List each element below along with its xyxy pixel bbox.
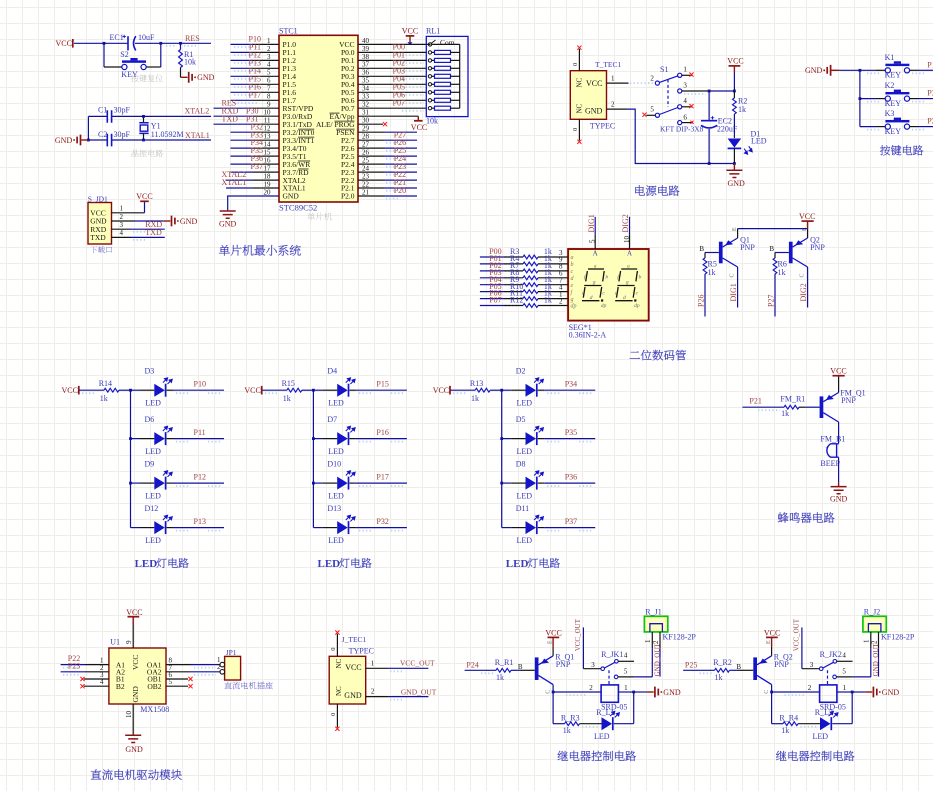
RL1 common pin row <box>428 43 431 46</box>
resistor R_R3 1k <box>565 722 580 726</box>
switch K1 KEY <box>860 69 876 71</box>
svg-text:g: g <box>571 297 574 303</box>
transistor R_Q2 PNP <box>753 657 757 680</box>
resistor R_R1 1k <box>496 668 511 672</box>
label caption crystal (gray) <box>132 150 163 157</box>
connector R_J2 KF128-2P body <box>863 616 886 632</box>
svg-text:DIG2: DIG2 <box>799 283 808 301</box>
pin wire S_JD1 pin4 TXD <box>112 236 132 238</box>
wire collector to coil <box>553 691 601 693</box>
svg-text:2: 2 <box>808 684 812 692</box>
pin wire U1 B1 nc <box>84 678 109 680</box>
svg-text:LED: LED <box>328 491 344 500</box>
svg-text:4: 4 <box>100 678 104 686</box>
svg-text:2: 2 <box>371 688 375 696</box>
svg-text:R_R1: R_R1 <box>495 658 514 667</box>
svg-text:1k: 1k <box>563 726 571 735</box>
svg-text:36: 36 <box>362 69 370 77</box>
power port VCC (MCU pin40) <box>409 36 411 42</box>
svg-text:8: 8 <box>267 93 271 101</box>
svg-text:LED: LED <box>135 558 158 570</box>
wire XTAL2 <box>88 115 107 117</box>
wire RES rail <box>74 42 128 44</box>
pin wire J_TEC1 GND_OUT <box>366 696 389 698</box>
svg-text:2: 2 <box>611 100 615 108</box>
node junction reset-R1 <box>179 42 182 45</box>
svg-text:P37: P37 <box>251 162 263 171</box>
svg-text:TYPEC: TYPEC <box>590 122 615 131</box>
svg-text:STC1: STC1 <box>279 26 298 35</box>
svg-text:C1: C1 <box>98 105 107 114</box>
svg-text:FM_B1: FM_B1 <box>820 434 845 443</box>
svg-text:P35: P35 <box>565 428 577 437</box>
svg-text:VCC: VCC <box>62 386 78 395</box>
svg-text:C2: C2 <box>98 130 107 139</box>
svg-text:10: 10 <box>125 711 133 719</box>
node junction led-gnd <box>733 162 736 165</box>
label caption power circuit <box>635 185 679 195</box>
wire DIG2 to display <box>629 217 631 235</box>
svg-text:33: 33 <box>362 93 370 101</box>
svg-text:PNP: PNP <box>556 660 571 669</box>
svg-text:KFT DIP-3X8: KFT DIP-3X8 <box>660 125 704 134</box>
svg-text:4: 4 <box>267 61 271 69</box>
svg-text:GND_OUT: GND_OUT <box>872 643 880 677</box>
svg-text:1k: 1k <box>781 726 789 735</box>
svg-text:9: 9 <box>267 101 271 109</box>
resistor R3 1k <box>480 256 504 258</box>
label caption MCU minimum system <box>219 245 301 256</box>
LED D5 <box>500 437 503 440</box>
svg-text:b: b <box>605 274 608 280</box>
MCU left pin wires and numbers <box>231 43 254 45</box>
switch K3 KEY <box>860 126 876 128</box>
svg-text:3: 3 <box>591 661 595 669</box>
svg-text:R_JK2: R_JK2 <box>820 650 842 659</box>
svg-text:D8: D8 <box>516 460 526 469</box>
svg-text:FM_R1: FM_R1 <box>780 394 805 403</box>
resistor network RL1 body <box>426 36 468 116</box>
svg-text:P13: P13 <box>194 517 206 526</box>
svg-text:1k: 1k <box>283 394 291 403</box>
svg-text:1: 1 <box>624 684 628 692</box>
svg-text:4: 4 <box>683 97 687 105</box>
svg-text:12: 12 <box>264 125 272 133</box>
relay coil SRD-05 (R_JK1) <box>601 685 618 702</box>
svg-text:R15: R15 <box>282 379 295 388</box>
svg-text:19: 19 <box>264 180 272 188</box>
svg-text:1k: 1k <box>715 673 723 682</box>
svg-text:VCC: VCC <box>136 192 152 201</box>
LED D12 <box>131 527 141 529</box>
svg-text:B: B <box>736 663 741 671</box>
resistor R12 1k <box>480 305 504 307</box>
svg-text:GND: GND <box>882 688 900 697</box>
svg-text:MX1508: MX1508 <box>140 705 169 714</box>
svg-text:5: 5 <box>650 106 654 114</box>
label caption key circuit <box>880 145 923 155</box>
connector S_JD1 body <box>88 203 112 245</box>
pin wire S_JD1 pin1 to VCC <box>112 212 145 214</box>
svg-text:XTAL2: XTAL2 <box>185 106 210 115</box>
capacitor C1 30pF <box>107 110 111 123</box>
svg-text:2: 2 <box>217 663 221 671</box>
svg-text:14: 14 <box>264 141 272 149</box>
svg-text:DIG1: DIG1 <box>729 283 738 301</box>
resistor R11 1k <box>480 298 504 300</box>
svg-text:KEY: KEY <box>885 71 902 80</box>
svg-text:B: B <box>699 245 704 253</box>
svg-text:g: g <box>593 279 596 285</box>
resistor R9 1k <box>480 284 504 286</box>
resistor R10 1k <box>480 291 504 293</box>
svg-text:GND: GND <box>219 219 237 228</box>
svg-text:40: 40 <box>362 37 370 45</box>
pin wire U1 A1 <box>61 664 85 666</box>
connector R_J1 KF128-2P body <box>644 616 667 632</box>
svg-text:11.0592M: 11.0592M <box>151 130 184 139</box>
power port VCC (digit drivers) <box>802 220 814 222</box>
svg-text:R_J1: R_J1 <box>645 607 661 616</box>
RL1 resistor elements <box>428 51 431 54</box>
svg-text:EC1: EC1 <box>110 33 124 42</box>
svg-text:39: 39 <box>362 45 370 53</box>
svg-text:TXD: TXD <box>222 114 239 123</box>
svg-text:0: 0 <box>572 128 579 131</box>
7-seg digit glyphs <box>582 269 604 301</box>
wire key bus <box>859 70 861 126</box>
svg-text:3: 3 <box>267 53 271 61</box>
svg-text:1k: 1k <box>544 296 552 305</box>
svg-text:4: 4 <box>624 652 628 660</box>
capacitor EC2 220uF <box>708 91 710 120</box>
svg-text:29: 29 <box>362 125 370 133</box>
svg-text:VCC: VCC <box>727 57 743 66</box>
svg-text:1: 1 <box>843 684 847 692</box>
pin wire TEC1 GND <box>607 108 628 110</box>
svg-text:S_JD1: S_JD1 <box>88 194 108 203</box>
label caption relay (R_J2) <box>776 751 854 761</box>
svg-text:b: b <box>571 262 574 268</box>
wire XTAL1 <box>88 139 107 141</box>
transistor R_Q1 PNP <box>535 657 539 680</box>
node junction coil gnd <box>632 691 635 694</box>
svg-text:E: E <box>732 227 738 231</box>
svg-text:10: 10 <box>264 109 272 117</box>
resistor R15 1k <box>262 389 287 391</box>
svg-text:21: 21 <box>362 188 370 196</box>
svg-text:P35: P35 <box>927 89 933 98</box>
svg-text:STC89C52: STC89C52 <box>279 202 317 212</box>
pin wire U1 OA1 <box>166 664 190 666</box>
J_TEC1 bottom shield pin <box>336 704 338 728</box>
7-seg display SEG*1 body <box>568 249 649 321</box>
svg-text:P20: P20 <box>394 186 406 195</box>
LED D3 <box>129 389 132 392</box>
transistor Q1 PNP <box>719 242 723 264</box>
svg-text:VCC: VCC <box>126 608 142 617</box>
svg-text:30pF: 30pF <box>114 105 131 114</box>
svg-text:20: 20 <box>264 188 272 196</box>
svg-text:31: 31 <box>362 109 370 117</box>
ground (buzzer) <box>838 482 840 486</box>
svg-text:2: 2 <box>559 297 563 305</box>
svg-text:VCC: VCC <box>764 628 780 637</box>
svg-text:LED: LED <box>517 536 533 545</box>
capacitor EC1 10uF <box>127 36 129 50</box>
transistor Q2 PNP <box>789 242 793 264</box>
label caption download port <box>90 246 112 253</box>
node junction collector R_Q1 <box>552 691 555 694</box>
LED D8 <box>500 482 503 485</box>
svg-text:A: A <box>593 249 598 257</box>
pin wire TEC1 VCC <box>607 82 629 84</box>
svg-text:LED: LED <box>517 491 533 500</box>
svg-text:K3: K3 <box>885 109 895 118</box>
svg-text:T_TEC1: T_TEC1 <box>595 60 621 69</box>
resistor R7 1k <box>480 270 504 272</box>
svg-text:5: 5 <box>169 678 173 686</box>
svg-text:R_L2: R_L2 <box>815 708 833 717</box>
connector J_TEC1 TYPEC body <box>329 656 366 704</box>
svg-text:32: 32 <box>362 101 370 109</box>
svg-text:LED: LED <box>751 137 767 146</box>
svg-text:5: 5 <box>842 668 846 676</box>
wire coil to gnd <box>837 691 852 693</box>
switch S1 section2 <box>655 113 659 117</box>
svg-text:LED: LED <box>517 398 533 407</box>
svg-text:P25: P25 <box>927 117 933 126</box>
J_TEC1 top shield pin <box>336 634 338 657</box>
svg-text:PNP: PNP <box>740 243 755 252</box>
power ground (reset) <box>181 76 188 78</box>
svg-text:6: 6 <box>683 113 687 121</box>
svg-text:LED: LED <box>145 491 161 500</box>
node junction key1 <box>859 69 862 72</box>
svg-text:PNP: PNP <box>774 660 789 669</box>
svg-text:P10: P10 <box>194 379 206 388</box>
svg-text:GND: GND <box>728 179 746 188</box>
svg-text:R_R2: R_R2 <box>713 658 732 667</box>
resistor R_R4 1k <box>783 722 798 726</box>
svg-text:+: + <box>825 445 829 452</box>
svg-text:28: 28 <box>362 133 370 141</box>
node junction gnd tap <box>87 139 90 142</box>
svg-text:R13: R13 <box>470 379 483 388</box>
svg-text:KF128-2P: KF128-2P <box>881 632 915 641</box>
svg-text:0: 0 <box>330 713 337 716</box>
LED D4 <box>312 389 315 392</box>
LED D10 <box>312 482 315 485</box>
svg-text:P25: P25 <box>685 660 697 669</box>
svg-text:R12: R12 <box>510 296 523 305</box>
LED D13 <box>313 527 323 529</box>
svg-text:R14: R14 <box>99 379 112 388</box>
label caption motor module <box>91 769 182 780</box>
pin wire U1 OA2 <box>166 671 190 673</box>
wire led branch <box>552 692 554 724</box>
svg-text:LED: LED <box>328 447 344 456</box>
svg-text:24: 24 <box>362 165 370 173</box>
svg-text:LED: LED <box>145 398 161 407</box>
svg-text:R_J2: R_J2 <box>864 607 880 616</box>
svg-text:1k: 1k <box>496 673 504 682</box>
svg-text:PNP: PNP <box>841 396 856 405</box>
svg-text:VCC: VCC <box>402 26 418 35</box>
label caption 7seg <box>630 350 686 360</box>
svg-text:Com: Com <box>440 38 455 47</box>
svg-text:VCC_OUT: VCC_OUT <box>574 618 582 651</box>
svg-text:C: C <box>546 690 552 694</box>
svg-text:TXD: TXD <box>90 233 106 242</box>
svg-text:0.36IN-2-A: 0.36IN-2-A <box>569 330 607 339</box>
svg-text:VCC: VCC <box>345 663 361 672</box>
node junction EC2 top <box>708 90 711 93</box>
node junction reset-left <box>103 42 106 45</box>
svg-text:P12: P12 <box>194 472 206 481</box>
pin wires R_J1 <box>651 632 653 648</box>
pin wire S_JD1 pin3 RXD <box>112 228 132 230</box>
svg-text:GND: GND <box>585 106 603 115</box>
pin wire J_TEC1 VCC_OUT <box>366 667 389 669</box>
node junction crystal top <box>142 115 145 118</box>
resistor R5 1k <box>704 253 706 259</box>
svg-text:LED: LED <box>506 558 529 570</box>
svg-text:VCC: VCC <box>433 386 449 395</box>
svg-text:5: 5 <box>624 668 628 676</box>
svg-text:D10: D10 <box>327 460 341 469</box>
svg-text:10uF: 10uF <box>138 33 155 42</box>
svg-text:P36: P36 <box>565 472 577 481</box>
svg-text:LED: LED <box>517 447 533 456</box>
resistor R14 1k <box>79 389 104 391</box>
node junction key2 <box>859 97 862 100</box>
wire gnd rail <box>627 109 734 163</box>
svg-text:g: g <box>626 279 629 285</box>
svg-text:NC: NC <box>576 103 584 113</box>
svg-text:P26: P26 <box>696 295 705 307</box>
svg-text:dp: dp <box>571 304 577 310</box>
power ground (R_JK1) <box>647 691 654 693</box>
svg-text:KF128-2P: KF128-2P <box>663 632 697 641</box>
svg-text:25: 25 <box>362 157 370 165</box>
svg-text:GND: GND <box>830 494 848 503</box>
svg-text:NC: NC <box>576 77 584 87</box>
svg-text:dp: dp <box>634 303 640 309</box>
svg-text:P15: P15 <box>376 379 388 388</box>
svg-text:4: 4 <box>842 652 846 660</box>
wire led bus R15 <box>312 390 314 527</box>
svg-text:P16: P16 <box>376 428 388 437</box>
LED R_L2 <box>820 717 831 730</box>
svg-text:22: 22 <box>362 180 370 188</box>
svg-text:K1: K1 <box>885 53 895 62</box>
T_TEC1 top shield pin <box>578 49 580 71</box>
svg-text:9: 9 <box>125 640 133 644</box>
resistor R_R2 1k <box>715 668 730 672</box>
resistor R2 1k <box>733 91 735 98</box>
svg-text:1k: 1k <box>778 268 786 277</box>
svg-text:GND: GND <box>283 192 300 201</box>
svg-text:VCC: VCC <box>56 39 72 48</box>
svg-text:U1: U1 <box>110 637 120 646</box>
svg-text:1: 1 <box>862 639 870 643</box>
svg-text:LED: LED <box>318 558 341 570</box>
svg-text:R_R3: R_R3 <box>561 713 580 722</box>
wire emitter rail <box>738 228 808 230</box>
node junction collector R_Q2 <box>770 691 773 694</box>
svg-text:P11: P11 <box>194 428 206 437</box>
resistor R4 1k <box>480 263 504 265</box>
svg-text:0: 0 <box>330 647 337 650</box>
connector JP1 body <box>225 656 241 680</box>
ground (MCU) <box>220 211 236 218</box>
svg-text:1: 1 <box>683 66 687 74</box>
svg-text:a: a <box>627 264 630 270</box>
svg-text:VCC: VCC <box>545 628 561 637</box>
wire crystal left bus <box>87 116 89 140</box>
svg-text:a: a <box>571 255 574 261</box>
svg-text:VCC: VCC <box>799 212 815 221</box>
LED D1 <box>728 139 742 148</box>
pin wire U1 OB2 nc <box>166 685 188 687</box>
svg-text:a: a <box>594 264 597 270</box>
svg-text:GND: GND <box>180 217 198 226</box>
svg-text:VCC: VCC <box>830 367 846 376</box>
pin wire U1 A2 <box>61 671 85 673</box>
svg-text:LED: LED <box>594 732 610 741</box>
MCU pin20 GND wire <box>228 196 279 211</box>
svg-text:dp: dp <box>601 303 607 309</box>
svg-text:TYPEC: TYPEC <box>349 647 374 656</box>
svg-text:5: 5 <box>589 239 597 243</box>
svg-text:VCC: VCC <box>411 123 427 132</box>
MCU right pin wires and numbers <box>358 43 431 45</box>
wire buzzer base <box>742 406 784 408</box>
svg-text:NC: NC <box>335 686 343 696</box>
RL1 internal bus <box>459 44 461 108</box>
svg-text:LED: LED <box>328 536 344 545</box>
svg-text:P07: P07 <box>393 98 405 107</box>
svg-text:11: 11 <box>264 117 271 125</box>
svg-text:J_TEC1: J_TEC1 <box>342 635 367 644</box>
svg-text:1k: 1k <box>100 394 108 403</box>
switch S2 KEY <box>103 43 105 67</box>
power port VCC (download) <box>140 200 149 202</box>
svg-text:23: 23 <box>362 173 370 181</box>
wire coil to gnd <box>618 691 633 693</box>
svg-text:D5: D5 <box>516 415 526 424</box>
node junction coil gnd <box>851 691 854 694</box>
svg-text:VCC_OUT: VCC_OUT <box>400 659 435 668</box>
svg-text:D4: D4 <box>327 367 337 376</box>
power port VCC (EA pin31) <box>417 116 419 120</box>
no connect X (ALE pin30) <box>383 122 387 126</box>
wire collector to coil <box>772 691 820 693</box>
node junction reset-right <box>159 42 162 45</box>
svg-text:A: A <box>627 249 632 257</box>
svg-text:38: 38 <box>362 53 370 61</box>
switch S1 link <box>667 80 669 108</box>
capacitor C2 30pF <box>107 134 111 147</box>
svg-text:D2: D2 <box>516 367 526 376</box>
svg-text:1: 1 <box>267 37 271 45</box>
svg-text:D12: D12 <box>145 504 159 513</box>
svg-text:RES: RES <box>185 34 200 43</box>
svg-text:P24: P24 <box>466 660 478 669</box>
motor driver U1 MX1508 body <box>109 648 166 704</box>
svg-text:S2: S2 <box>120 50 128 59</box>
